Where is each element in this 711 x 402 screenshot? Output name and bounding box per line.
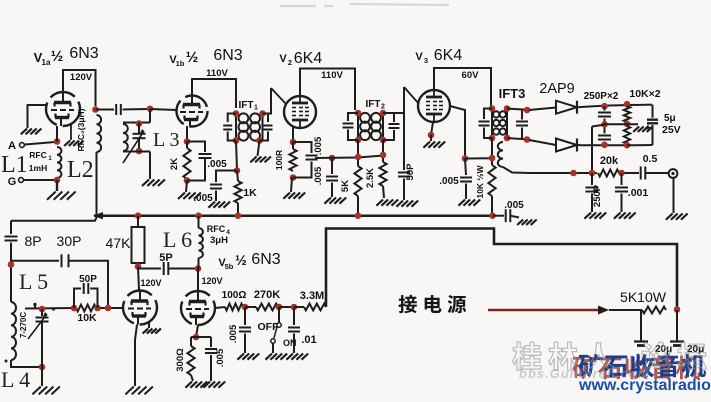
- svg-text:100R: 100R: [274, 150, 284, 170]
- svg-text:25V: 25V: [662, 124, 681, 136]
- svg-text:0.5: 0.5: [643, 153, 658, 165]
- svg-text:270K: 270K: [254, 289, 280, 301]
- svg-text:3μH: 3μH: [210, 235, 228, 246]
- svg-text:.005: .005: [228, 324, 239, 343]
- svg-text:100Ω: 100Ω: [222, 290, 247, 301]
- svg-text:1K: 1K: [243, 187, 257, 199]
- svg-text:1mH: 1mH: [29, 163, 47, 173]
- svg-text:6K4: 6K4: [434, 47, 463, 64]
- svg-text:RFC₂(3μH): RFC₂(3μH): [76, 108, 86, 151]
- svg-text:L2: L2: [67, 157, 94, 183]
- svg-text:3.3M: 3.3M: [300, 290, 324, 302]
- svg-text:.005: .005: [207, 159, 227, 170]
- svg-text:V: V: [279, 53, 287, 65]
- svg-text:IFT3: IFT3: [499, 86, 526, 101]
- svg-text:.005: .005: [439, 176, 459, 187]
- svg-text:IFT: IFT: [239, 100, 254, 111]
- svg-text:120V: 120V: [140, 278, 161, 288]
- svg-text:L 6: L 6: [163, 227, 192, 252]
- svg-text:.005: .005: [313, 166, 324, 185]
- svg-text:A: A: [8, 140, 16, 152]
- svg-text:10K ½W: 10K ½W: [475, 164, 485, 198]
- svg-text:1: 1: [254, 105, 258, 112]
- svg-text:6N3: 6N3: [213, 47, 242, 64]
- svg-text:20k: 20k: [600, 155, 619, 167]
- svg-text:2AP9: 2AP9: [539, 81, 574, 97]
- svg-text:RFC: RFC: [29, 150, 46, 160]
- svg-text:250P×2: 250P×2: [584, 91, 619, 102]
- svg-text:L 4: L 4: [1, 367, 30, 392]
- svg-text:10K×2: 10K×2: [629, 88, 660, 100]
- svg-text:7-270C: 7-270C: [19, 312, 28, 338]
- svg-text:+: +: [645, 123, 651, 134]
- svg-text:L 5: L 5: [19, 269, 48, 294]
- svg-text:½: ½: [235, 252, 247, 268]
- svg-text:120V: 120V: [201, 276, 222, 286]
- svg-text:60V: 60V: [462, 70, 480, 81]
- svg-text:6N3: 6N3: [251, 251, 280, 268]
- svg-text:110V: 110V: [321, 70, 343, 81]
- svg-text:110V: 110V: [206, 68, 228, 79]
- svg-text:.01: .01: [301, 334, 316, 346]
- svg-text:6K4: 6K4: [294, 50, 323, 67]
- svg-text:V: V: [415, 51, 423, 63]
- svg-text:250P: 250P: [592, 184, 603, 207]
- svg-text:8P: 8P: [24, 233, 41, 249]
- svg-text:2K: 2K: [169, 158, 180, 170]
- svg-text:5μ: 5μ: [664, 113, 676, 124]
- svg-text:IFT: IFT: [366, 99, 381, 110]
- svg-text:.005: .005: [193, 193, 213, 204]
- svg-text:1a: 1a: [42, 58, 51, 67]
- svg-text:50P: 50P: [405, 163, 416, 181]
- svg-text:½: ½: [186, 49, 199, 66]
- svg-text:.001: .001: [628, 187, 649, 199]
- svg-text:5K10W: 5K10W: [620, 289, 667, 305]
- svg-text:RFC: RFC: [207, 224, 226, 234]
- svg-text:.005: .005: [504, 200, 524, 211]
- svg-text:47K: 47K: [106, 235, 132, 251]
- svg-text:½: ½: [51, 48, 64, 65]
- svg-text:50P: 50P: [79, 274, 97, 285]
- svg-text:.005: .005: [313, 136, 324, 155]
- svg-text:3: 3: [424, 56, 428, 65]
- svg-text:5b: 5b: [225, 262, 234, 271]
- svg-text:1b: 1b: [176, 59, 185, 68]
- svg-text:L1: L1: [1, 152, 28, 178]
- svg-text:6N3: 6N3: [69, 45, 98, 62]
- svg-text:2: 2: [381, 104, 385, 111]
- svg-text:300Ω: 300Ω: [175, 348, 186, 372]
- svg-text:2: 2: [288, 58, 292, 67]
- svg-text:30P: 30P: [57, 233, 82, 249]
- svg-text:L 3: L 3: [153, 129, 179, 151]
- svg-text:5P: 5P: [159, 252, 172, 264]
- svg-text:2.5K: 2.5K: [365, 168, 376, 188]
- svg-text:5K: 5K: [340, 180, 351, 192]
- svg-text:.005: .005: [215, 348, 226, 367]
- svg-text:120V: 120V: [70, 72, 93, 83]
- svg-text:10K: 10K: [77, 312, 97, 324]
- svg-text:OFF: OFF: [258, 321, 280, 333]
